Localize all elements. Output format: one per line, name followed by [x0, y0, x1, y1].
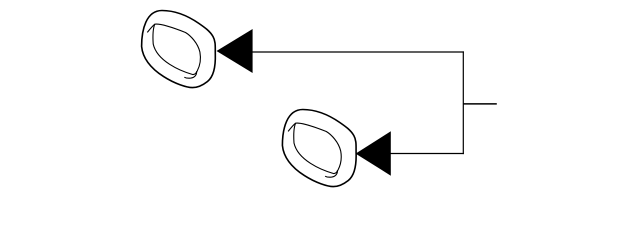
wire top rail	[252, 51, 464, 53]
arrow 1	[217, 29, 253, 73]
wire vertical	[462, 51, 464, 154]
wire bottom rail	[390, 153, 464, 155]
grommet part 1	[142, 11, 216, 88]
wire stub	[463, 103, 497, 105]
arrow 2	[356, 131, 391, 175]
grommet part 2	[282, 110, 356, 187]
